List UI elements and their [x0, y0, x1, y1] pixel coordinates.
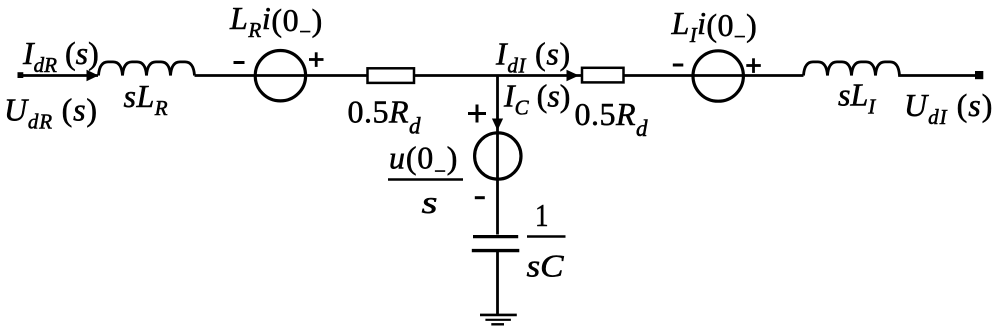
- svg-text:LIi(0−): LIi(0−): [671, 5, 758, 49]
- svg-text:s: s: [422, 184, 438, 220]
- svg-text:IdI (s): IdI (s): [495, 36, 571, 78]
- svg-text:1: 1: [535, 197, 549, 233]
- svg-text:IdR (s): IdR (s): [22, 35, 99, 77]
- svg-text:sC: sC: [527, 248, 565, 284]
- svg-text:sLI: sLI: [838, 77, 876, 119]
- svg-text:u(0−): u(0−): [389, 140, 458, 184]
- svg-text:IC (s): IC (s): [503, 78, 570, 120]
- svg-text:0.5Rd: 0.5Rd: [575, 96, 649, 141]
- svg-text:UdR (s): UdR (s): [4, 92, 98, 134]
- svg-text:LRi(0−): LRi(0−): [229, 0, 323, 44]
- svg-text:UdI (s): UdI (s): [904, 87, 993, 129]
- svg-text:sLR: sLR: [124, 78, 169, 120]
- svg-text:0.5Rd: 0.5Rd: [348, 94, 422, 139]
